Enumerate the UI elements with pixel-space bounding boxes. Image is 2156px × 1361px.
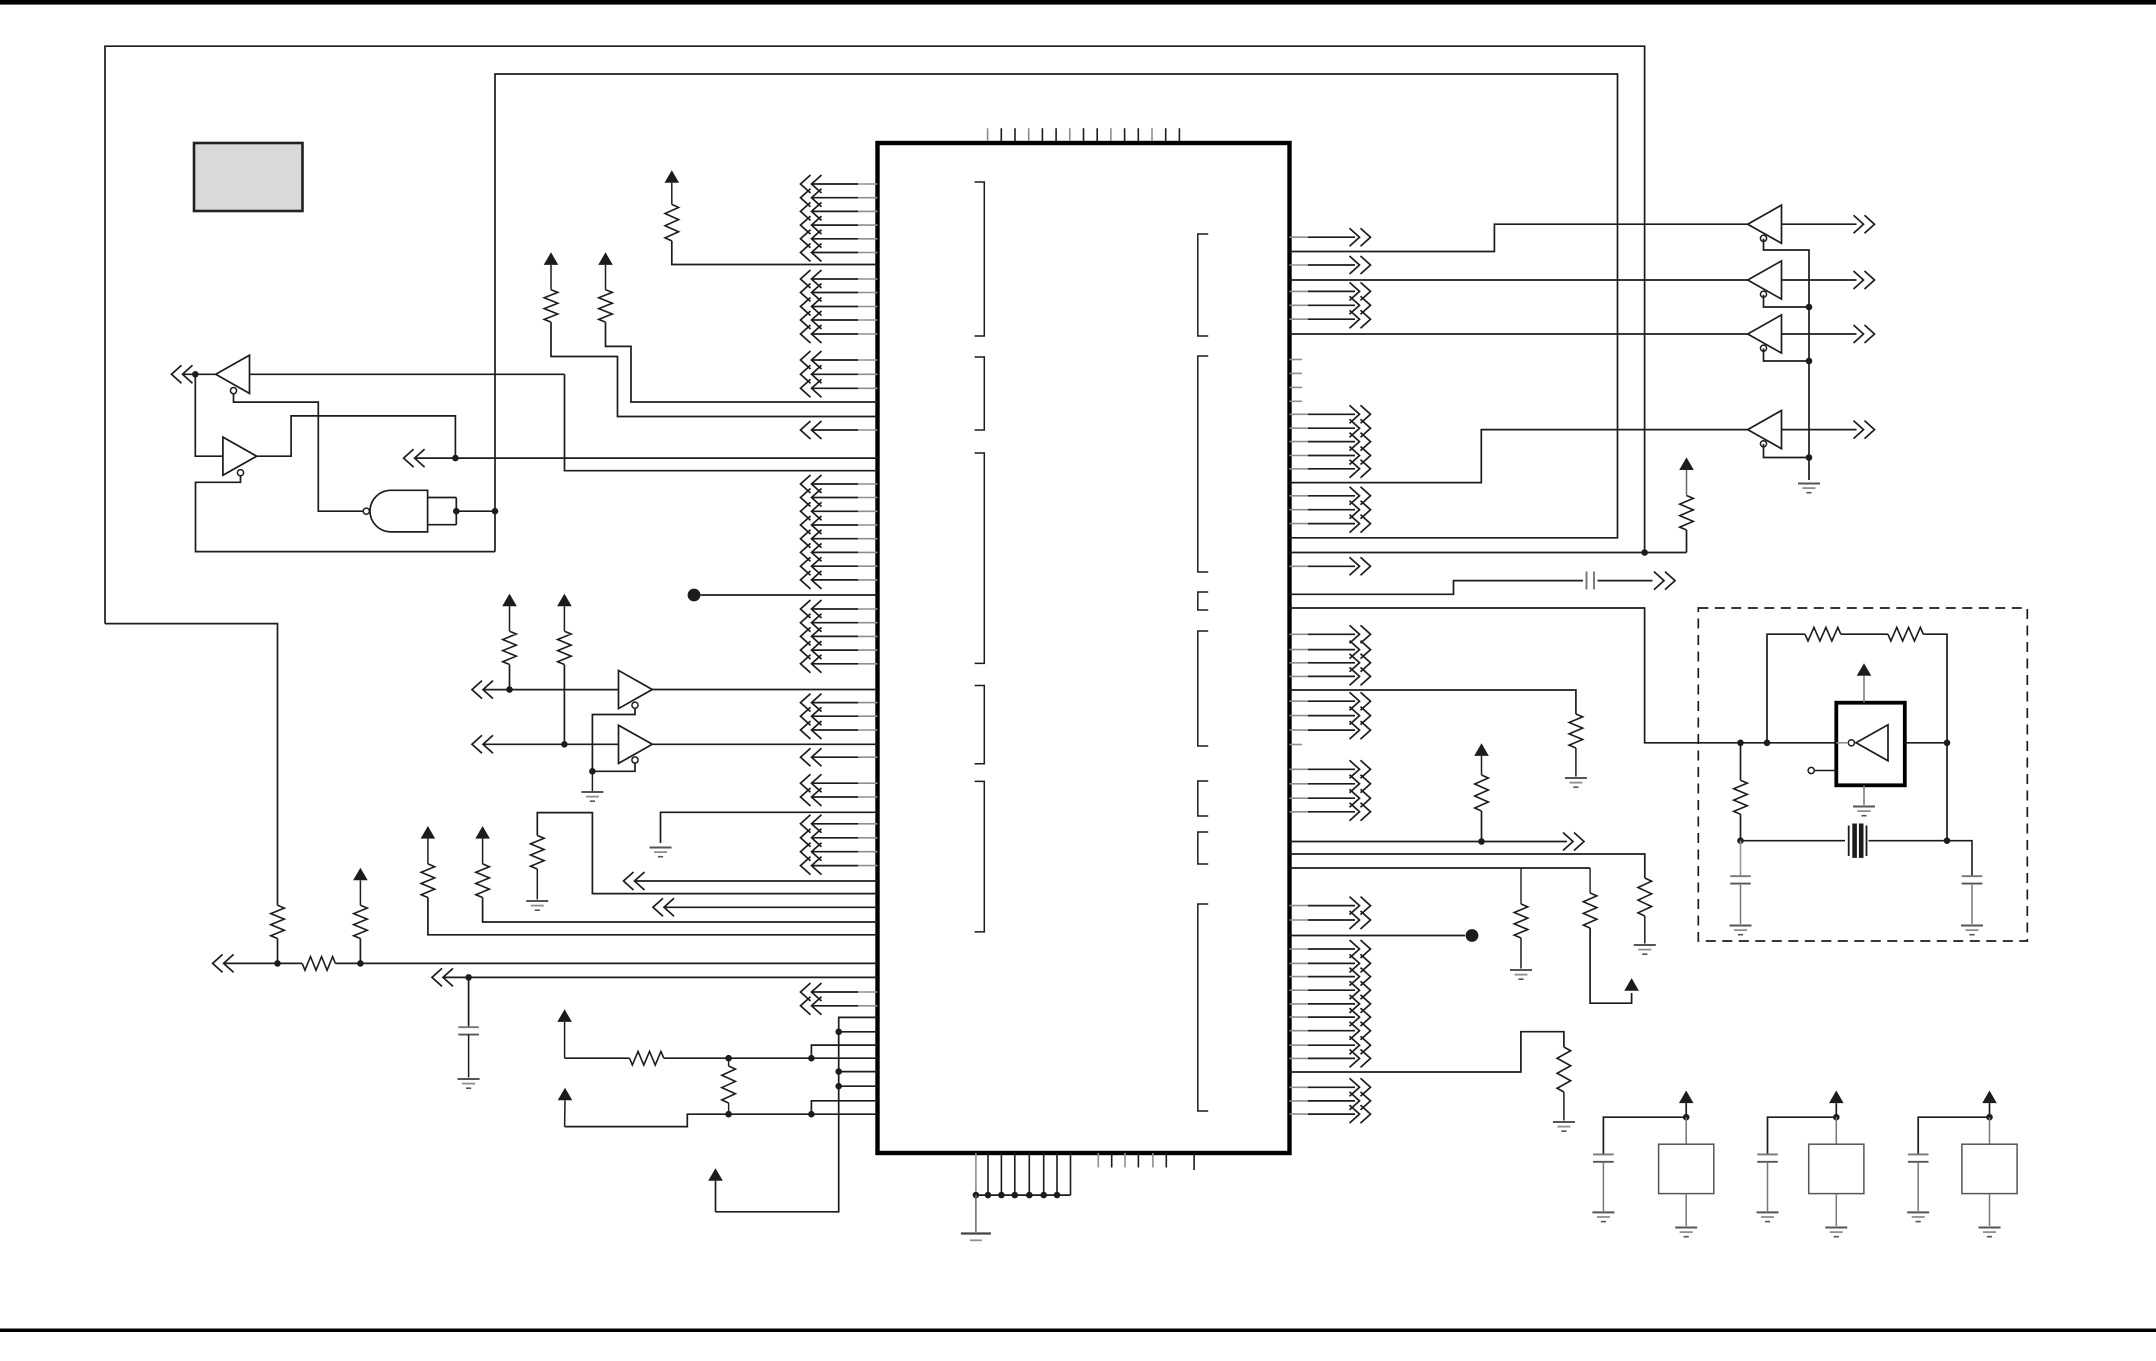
IC left input pins (chevron arrows) bbox=[801, 175, 878, 1015]
node K bbox=[465, 974, 472, 981]
wire R6 to ground bbox=[536, 869, 538, 900]
IC left pin-group brackets bbox=[975, 182, 985, 932]
bubble B1 bbox=[1760, 235, 1766, 241]
wire pin594 bbox=[1290, 581, 1584, 595]
wire node to cap C1 bbox=[468, 977, 470, 1027]
wire R11 gnd bbox=[1575, 748, 1577, 777]
IC right unconnected stubs bbox=[1290, 360, 1303, 745]
resistor R23 bbox=[1680, 496, 1694, 531]
power arrow VP11 bbox=[558, 1088, 573, 1101]
bubble T4 bbox=[632, 757, 638, 763]
wire feedback right bbox=[1923, 634, 1947, 743]
wire IC to B4 bbox=[1290, 430, 1749, 483]
chevron in net744 bbox=[472, 735, 493, 753]
wire U2 out bbox=[1905, 742, 1947, 744]
wire C3 gnd bbox=[1971, 884, 1973, 924]
wire module 2 drop bbox=[1835, 1117, 1837, 1144]
wire T4 input bbox=[483, 743, 619, 745]
power arrow VP1 bbox=[353, 868, 368, 881]
ground GC bbox=[650, 847, 672, 849]
node V bbox=[1478, 838, 1485, 845]
power arrow VP3 bbox=[665, 170, 680, 183]
wire T1 enable bbox=[234, 394, 364, 512]
power arrow VP6 bbox=[502, 594, 517, 607]
node I bbox=[561, 741, 568, 748]
buffer B1 bbox=[1748, 205, 1782, 243]
capacitor C4 bbox=[1730, 875, 1751, 877]
ground GO3 bbox=[1979, 1227, 2001, 1229]
buffer T3 bbox=[619, 670, 653, 708]
node U bbox=[1806, 454, 1813, 461]
ground GI bbox=[1510, 969, 1532, 971]
chevron in net689 bbox=[472, 681, 493, 699]
power arrow VP2 bbox=[1679, 457, 1694, 470]
chevron in net907 bbox=[653, 898, 674, 916]
bottom border bar bbox=[0, 1329, 2156, 1333]
wire pin935 bbox=[1290, 935, 1466, 937]
capacitor C7 bbox=[1908, 1153, 1929, 1155]
wire net1058 bbox=[565, 1057, 630, 1059]
crystal X1 bbox=[1848, 826, 1850, 857]
node R bbox=[835, 1083, 842, 1090]
resistor R16 bbox=[1557, 1047, 1571, 1092]
wire enable rail bbox=[1764, 239, 1810, 480]
bubble T1 bbox=[230, 388, 236, 394]
wire R19 down bbox=[1740, 814, 1742, 841]
wire R7 to pin934 bbox=[428, 898, 878, 935]
resistor R2 bbox=[544, 290, 558, 322]
wire IC to B2 bbox=[1290, 279, 1749, 281]
wire osc input node bbox=[1737, 740, 1744, 747]
wire inner loop bbox=[495, 74, 1618, 552]
wire C4 gnd bbox=[1740, 884, 1742, 924]
power arrow VP9 bbox=[475, 826, 490, 839]
IC bottom pin stubs bbox=[1098, 1153, 1194, 1170]
IC top pin stubs bbox=[988, 128, 1180, 141]
wire R17-R18 bbox=[1841, 633, 1888, 635]
node M1 bbox=[1683, 1114, 1690, 1121]
wire net963 to IC bbox=[360, 962, 877, 964]
ground GO1 bbox=[1675, 1227, 1697, 1229]
wire net458 to IC bbox=[415, 457, 878, 459]
bubble U2 enable bbox=[1808, 767, 1814, 773]
ground GB bbox=[961, 1234, 991, 1241]
wire B3 out bbox=[1782, 333, 1857, 335]
chevron out net963 bbox=[213, 954, 234, 972]
regulator box M1 bbox=[1659, 1144, 1714, 1193]
wire R20 to node bbox=[277, 939, 279, 964]
wire pin854 bbox=[1290, 854, 1645, 878]
wire B1 out bbox=[1782, 223, 1857, 225]
node D bbox=[192, 371, 199, 378]
wire R4 down bbox=[509, 665, 511, 690]
wire R1 to pin264 bbox=[672, 241, 878, 265]
wire box3 gnd bbox=[1989, 1194, 1991, 1226]
resistor R14 bbox=[1520, 868, 1522, 904]
capacitor C1 bbox=[458, 1026, 479, 1028]
wire box2 gnd bbox=[1835, 1194, 1837, 1226]
resistor R3 bbox=[599, 290, 613, 322]
terminal dot net935 bbox=[1466, 929, 1479, 942]
wire pin841 bbox=[1290, 841, 1482, 843]
wire C5 gnd bbox=[1602, 1162, 1604, 1211]
node B bbox=[359, 939, 361, 964]
wire T2 out to net458 bbox=[256, 416, 456, 458]
ground GF bbox=[1798, 483, 1820, 485]
bubble T2 bbox=[237, 470, 243, 476]
node C bbox=[1641, 549, 1648, 556]
ground GH bbox=[1634, 944, 1656, 946]
wire net1114 bbox=[565, 1114, 878, 1126]
node G bbox=[492, 508, 499, 515]
node M2 bbox=[1833, 1114, 1840, 1121]
ground GE bbox=[458, 1078, 480, 1080]
resistor R19 bbox=[1734, 780, 1748, 814]
wire outer loop (VDD rail) bbox=[105, 46, 1645, 623]
node P bbox=[835, 1029, 842, 1036]
regulator box M2 bbox=[1809, 1144, 1864, 1193]
ground GO2 bbox=[1825, 1227, 1847, 1229]
wire border drop to R network bbox=[105, 624, 278, 906]
resistor R4 bbox=[503, 631, 517, 664]
inverter U2 box bbox=[1836, 703, 1905, 786]
wire xtal rail left bbox=[1740, 743, 1742, 781]
IC right pin-group brackets bbox=[1198, 234, 1208, 1111]
ground GN2 bbox=[1757, 1211, 1779, 1213]
resistor R20 bbox=[271, 905, 285, 938]
buffer T4 bbox=[619, 725, 653, 763]
wire module 2 link bbox=[1768, 1117, 1837, 1154]
wire R15 to VP14 bbox=[1590, 928, 1632, 1003]
capacitor C6 bbox=[1757, 1153, 1778, 1155]
chevron out net977 bbox=[432, 968, 453, 986]
node O bbox=[808, 1111, 815, 1118]
power arrow VP12 bbox=[708, 1168, 723, 1181]
wire R14 gnd bbox=[1520, 938, 1522, 969]
wire module 3 link bbox=[1918, 1117, 1989, 1154]
wire B4 out bbox=[1782, 429, 1857, 431]
bubble T3 bbox=[632, 702, 638, 708]
IC ground pin bus bbox=[973, 1153, 1071, 1198]
buffer T2 bbox=[223, 437, 257, 475]
wire to ground bbox=[591, 771, 593, 791]
resistor R22 bbox=[354, 905, 368, 938]
wire pin551 to border bbox=[1290, 552, 1645, 554]
node J bbox=[589, 768, 596, 775]
wire IC to B3 bbox=[1290, 333, 1749, 335]
wire pin690 bbox=[1290, 690, 1576, 714]
wire T3 input bbox=[483, 689, 619, 691]
node Q bbox=[835, 1068, 842, 1075]
power arrow VP15 bbox=[1857, 663, 1872, 676]
wire R5 down bbox=[563, 665, 565, 745]
wire pin868 bbox=[1290, 867, 1591, 869]
wire R12 node bbox=[1481, 811, 1483, 842]
nand output box bbox=[428, 498, 457, 525]
ground GM bbox=[1730, 925, 1752, 927]
wire enable chain bbox=[592, 708, 635, 771]
chevron out B3 bbox=[1854, 325, 1875, 343]
ground GG bbox=[1565, 777, 1587, 779]
chevron out net841 bbox=[1563, 833, 1584, 851]
power arrow VP5 bbox=[598, 252, 613, 265]
ground GL bbox=[1961, 925, 1983, 927]
wire node to R23 bbox=[1645, 552, 1687, 554]
wire T3 out to IC bbox=[652, 689, 877, 691]
power arrow VP10 bbox=[557, 1009, 572, 1022]
ground GK bbox=[1853, 806, 1875, 808]
power arrow VP14 bbox=[1624, 978, 1639, 991]
resistor R11 bbox=[1569, 714, 1583, 748]
wire R16 gnd bbox=[1563, 1092, 1565, 1121]
wire net977 to IC bbox=[443, 976, 878, 978]
wire module 3 drop bbox=[1989, 1117, 1991, 1144]
power arrow VP13 bbox=[1474, 743, 1489, 756]
wire U2 enable stub bbox=[1814, 770, 1836, 772]
ground GA bbox=[581, 791, 603, 793]
bubble B4 bbox=[1760, 441, 1766, 447]
wire module 1 link bbox=[1603, 1117, 1686, 1154]
buffer T1 bbox=[216, 355, 250, 393]
node M3 bbox=[1986, 1114, 1993, 1121]
resistor R10 bbox=[728, 1058, 730, 1066]
wire module 1 drop bbox=[1685, 1117, 1687, 1144]
IC U1 body bbox=[878, 143, 1290, 1153]
IC right output pins (chevron arrows) bbox=[1290, 228, 1371, 1123]
chevron in net881 bbox=[624, 872, 645, 890]
oscillator enclosure (dashed) bbox=[1698, 608, 2027, 941]
resistor R17 (feedback) bbox=[1805, 627, 1841, 641]
buffer B2 bbox=[1748, 261, 1782, 299]
wire C1 to ground bbox=[468, 1035, 470, 1078]
wire stub1031 bbox=[839, 1031, 878, 1033]
power arrow VP17 bbox=[1829, 1091, 1844, 1104]
node L bbox=[725, 1055, 732, 1062]
regulator box M3 bbox=[1962, 1144, 2017, 1193]
wire net1058b bbox=[664, 1057, 878, 1059]
wire branch pin1045 bbox=[811, 1045, 877, 1058]
wire R13 gnd bbox=[1644, 916, 1646, 944]
resistor R15 bbox=[1589, 868, 1591, 893]
wire to C4 bbox=[1740, 841, 1742, 877]
chevron out net580 bbox=[1654, 572, 1675, 590]
title block (grey) bbox=[194, 143, 303, 211]
resistor R7 bbox=[421, 864, 435, 898]
wire pin812 to ground bbox=[661, 812, 878, 843]
wire stub1071 bbox=[839, 1071, 878, 1073]
capacitor C2 (series) bbox=[1586, 572, 1588, 590]
wire net841 out bbox=[1482, 841, 1568, 843]
node X bbox=[1944, 740, 1951, 747]
node F bbox=[453, 508, 460, 515]
wire IC to B1 bbox=[1290, 224, 1749, 251]
wire net to T2 input bbox=[195, 374, 223, 456]
ground GN1 bbox=[1592, 1211, 1614, 1213]
bubble B2 bbox=[1760, 291, 1766, 297]
node Z bbox=[1944, 837, 1951, 844]
resistor R6 bbox=[531, 836, 545, 869]
wire net471 bbox=[565, 374, 878, 470]
buffer B4 bbox=[1748, 411, 1782, 449]
terminal dot net595 bbox=[688, 589, 701, 602]
resistor R21 (series) bbox=[278, 962, 303, 964]
chevron out B4 bbox=[1854, 421, 1875, 439]
wire U2 gnd stem bbox=[1863, 785, 1865, 805]
power arrow VP4 bbox=[544, 252, 559, 265]
power arrow VP16 bbox=[1679, 1091, 1694, 1104]
resistor R1 bbox=[665, 204, 679, 240]
wire xtal line bbox=[1741, 840, 1846, 842]
ground GD bbox=[526, 900, 548, 902]
inverter U2 triangle bbox=[1856, 725, 1888, 761]
wire R3 to pin402 bbox=[606, 322, 878, 402]
resistor R12 bbox=[1475, 775, 1489, 811]
resistor R5 bbox=[558, 631, 572, 664]
capacitor C5 bbox=[1593, 1153, 1614, 1155]
chevron out net458 bbox=[404, 449, 425, 467]
wire chev to buffer T1 bbox=[183, 373, 219, 375]
power arrow VP7 bbox=[557, 594, 572, 607]
resistor R18 (feedback) bbox=[1888, 627, 1923, 641]
node Y bbox=[1737, 837, 1744, 844]
node T bbox=[1806, 358, 1813, 365]
buffer B3 bbox=[1748, 315, 1782, 353]
node A bbox=[274, 960, 281, 967]
top border bar bbox=[0, 0, 2156, 5]
bubble B3 bbox=[1760, 345, 1766, 351]
wire box1 gnd bbox=[1685, 1194, 1687, 1226]
wire U2 in bbox=[1836, 742, 1848, 744]
node S bbox=[1806, 304, 1813, 311]
chevron out B2 bbox=[1854, 271, 1875, 289]
wire C2 out bbox=[1598, 580, 1653, 582]
wire branch pin1100 bbox=[811, 1101, 877, 1114]
wire stub1086 bbox=[839, 1085, 878, 1087]
node M bbox=[808, 1055, 815, 1062]
node H bbox=[506, 686, 513, 693]
node N bbox=[725, 1111, 732, 1118]
wire T1 input bbox=[250, 373, 565, 375]
wire C7 gnd bbox=[1917, 1162, 1919, 1211]
wire bus to ground bbox=[975, 1195, 977, 1232]
wire pin1072 bbox=[1290, 1032, 1564, 1072]
node E bbox=[452, 455, 459, 462]
wire to C3 bbox=[1947, 841, 1972, 877]
bubble U2 in bbox=[1848, 740, 1854, 746]
resistor R13 bbox=[1638, 878, 1652, 916]
wire pin893 bbox=[537, 813, 877, 894]
wire T4 out to IC bbox=[652, 743, 877, 745]
wire feedback top bbox=[1767, 634, 1805, 743]
wire pin608 to osc bbox=[1290, 608, 1837, 743]
power arrow VP18 bbox=[1982, 1091, 1997, 1104]
chevron out B1 bbox=[1854, 215, 1875, 233]
wire T2 enable bbox=[196, 476, 496, 552]
power arrow VP8 bbox=[421, 826, 436, 839]
ground GJ bbox=[1553, 1121, 1575, 1123]
ground GN3 bbox=[1907, 1211, 1929, 1213]
capacitor C3 bbox=[1962, 875, 1983, 877]
node W bbox=[1764, 740, 1771, 747]
wire R2 to pin416 bbox=[551, 322, 878, 416]
wire C6 gnd bbox=[1767, 1162, 1769, 1211]
chevron out net374 bbox=[172, 365, 193, 383]
wire nand to inner loop bbox=[456, 510, 495, 512]
wire net595 bbox=[700, 594, 877, 596]
wire VP12 riser bbox=[716, 1017, 878, 1211]
wire R8 to pin922 bbox=[483, 898, 878, 923]
resistor R9 (series) bbox=[630, 1051, 664, 1065]
wire B2 out bbox=[1782, 279, 1857, 281]
nand gate G1 body bbox=[370, 490, 428, 532]
resistor R8 bbox=[476, 864, 490, 898]
